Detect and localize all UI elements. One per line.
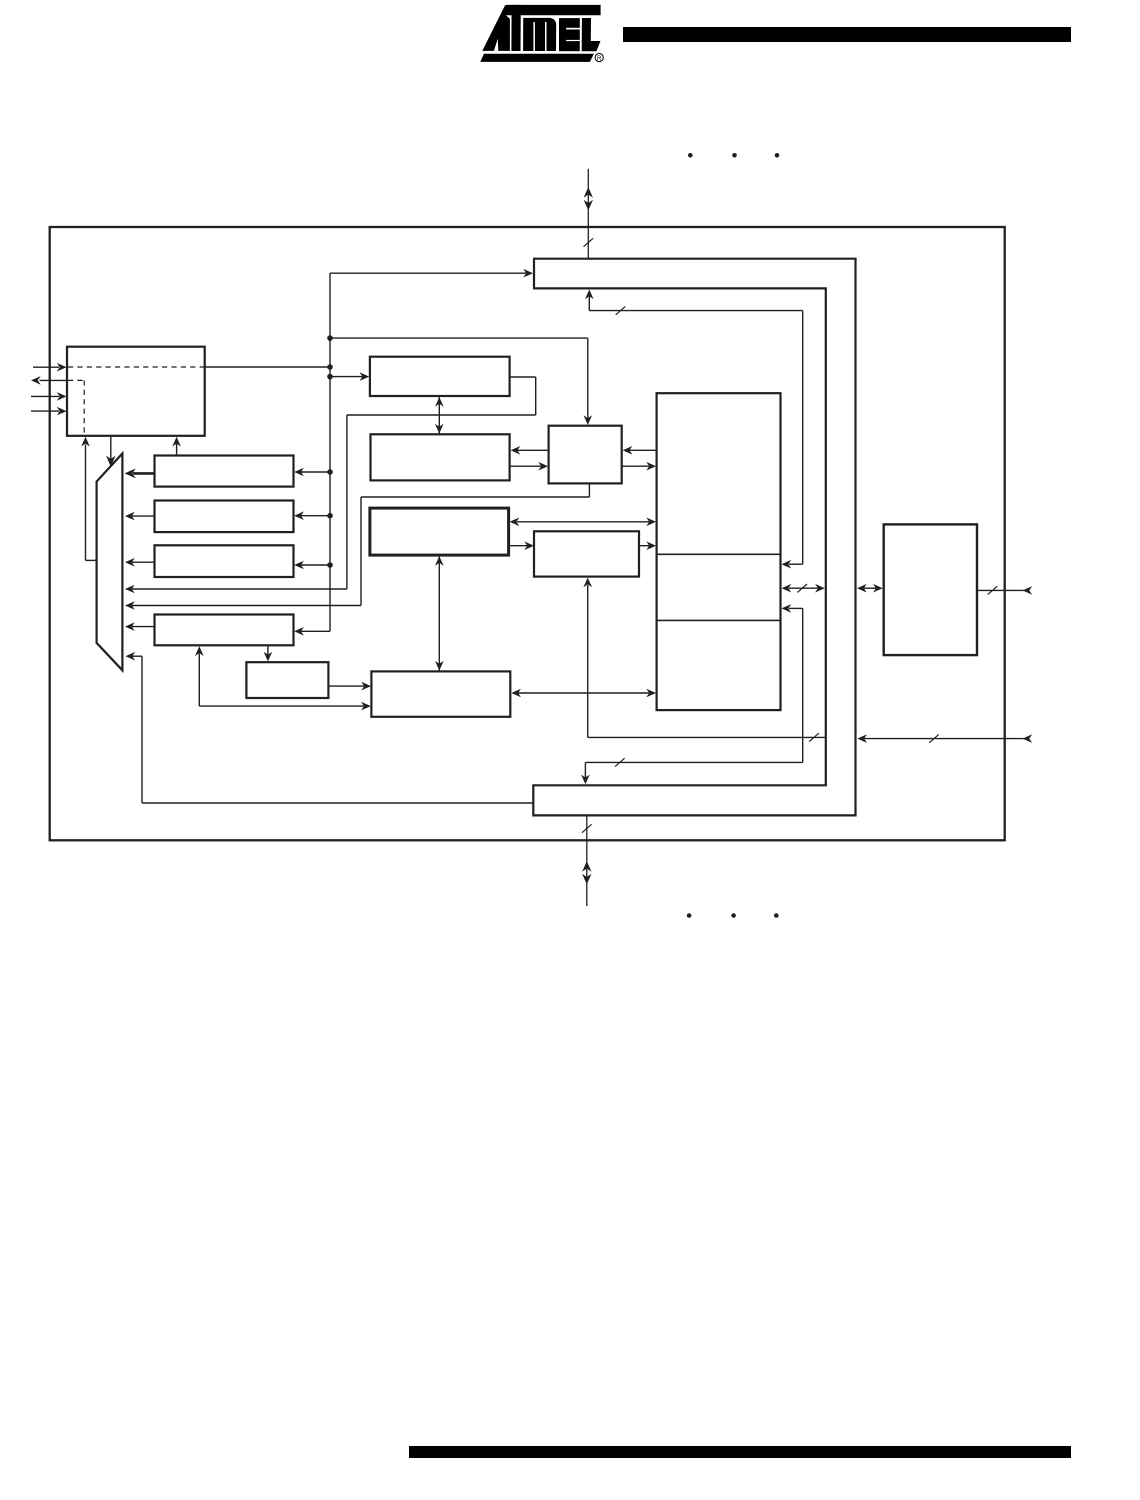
instruction register box (370, 357, 510, 396)
wire regfile to control (623, 446, 657, 455)
register file divider upper (657, 553, 781, 555)
wire bus to register2 input (294, 511, 330, 520)
external output wire 2 (31, 376, 67, 385)
bidirectional arrow alu to data sram (435, 555, 444, 671)
svg-text:R: R (597, 56, 602, 62)
general purpose register file block (657, 393, 781, 710)
ellipsis dots top (688, 153, 779, 158)
register box 1 (155, 456, 294, 487)
wire register1 to mux (125, 469, 155, 479)
wire bus down to regfile X (585, 290, 803, 569)
bottom data bus channel (532, 785, 856, 815)
wire status register to regfile (639, 541, 656, 550)
dashed internal line corner (68, 380, 84, 434)
external input wire 3 (31, 392, 67, 401)
top port pin bus slash (584, 238, 594, 246)
register box 4 (155, 615, 294, 646)
wire alu to status register (509, 541, 534, 550)
bidirectional wire sram regfile (511, 689, 656, 698)
wire register4 to mux (125, 622, 155, 631)
wire control to regfile (622, 462, 656, 471)
bidirectional arrow instr reg/decoder (435, 396, 444, 434)
external input wire 1 (33, 363, 67, 372)
wire loop to mux upper (125, 585, 347, 594)
top port pin line (587, 169, 589, 259)
node dot 4 (327, 469, 333, 475)
bus slash external pin (929, 734, 939, 742)
data sram block (371, 671, 510, 716)
bidirectional wire alu regfile (510, 518, 656, 527)
register box 3 (155, 545, 294, 577)
bus slash bottom feed (615, 758, 625, 766)
external bus pin wire (857, 734, 1032, 743)
wire timer to data sram block (328, 682, 371, 691)
node dot 2 (327, 364, 333, 370)
wire bus to register1 input (294, 468, 330, 477)
right bus vertical outer (854, 259, 856, 816)
wire instruction register loop (347, 377, 536, 589)
bottom port pin line (586, 815, 588, 906)
instruction decoder box (371, 434, 510, 480)
bus slash on status feed (809, 733, 819, 741)
bidirectional wire bus eeprom (857, 584, 883, 593)
bus slash regfile (797, 584, 807, 592)
wire register4 and sram link (195, 646, 371, 710)
bus slash near top bus (616, 306, 626, 314)
register box 2 (155, 501, 294, 533)
bottom pin bus slash (582, 824, 592, 832)
wire register3 to mux (125, 558, 155, 567)
top-left block (with dashed internal bus) (67, 347, 205, 436)
wire bus to instruction register (330, 372, 369, 381)
node dot 5 (327, 513, 333, 519)
wire bus to mux output up (81, 437, 96, 561)
wire bus to top data bus (330, 269, 533, 278)
alu box (370, 508, 509, 555)
wire decoder from control (511, 446, 549, 455)
dashed internal line horizontal (68, 366, 204, 368)
external eeprom pin wire (977, 586, 1032, 595)
wire loop to mux lower (125, 601, 361, 610)
vertical bus line (329, 273, 331, 631)
header rule bar (623, 27, 1071, 42)
wire bus to register4 input (294, 627, 330, 636)
top data bus channel (533, 259, 857, 289)
right bus vertical inner (825, 288, 827, 785)
chip boundary box (50, 227, 1005, 840)
eeprom block (884, 524, 977, 655)
wire register4 down to timer (264, 645, 273, 661)
wire bus feed up into status register (583, 578, 825, 738)
wire top-left block down to mux (106, 436, 116, 467)
external input wire 4 (31, 407, 67, 416)
node dot 1 (327, 335, 333, 341)
register file divider lower (657, 619, 781, 621)
wire control bottom loop (361, 483, 589, 605)
wire top-left block to bus node (205, 366, 330, 368)
wire decoder to control (510, 462, 548, 471)
wire bus to status block top (330, 338, 592, 425)
node dot 6 (327, 562, 333, 568)
wire bottom bus to mux (126, 652, 534, 803)
ellipsis dots bottom (687, 913, 779, 918)
footer rule bar (409, 1446, 1071, 1458)
node dot 3 (327, 374, 333, 380)
control block (549, 426, 622, 484)
mux trapezoid (97, 454, 123, 671)
wire register1 up to top-left block (172, 437, 181, 456)
wire bus to register3 input (294, 561, 330, 570)
status register box (534, 531, 639, 576)
bottom port pin bidirectional arrowheads (582, 861, 591, 885)
Atmel logo (480, 5, 603, 62)
bidirectional wire regfile inner bus (782, 584, 825, 593)
wire regfile Y down to bottom bus (581, 604, 803, 784)
small timer box (246, 662, 328, 698)
top port pin bidirectional arrowheads (584, 187, 593, 211)
wire register2 to mux (125, 512, 155, 521)
bus slash eeprom pin (988, 586, 998, 594)
